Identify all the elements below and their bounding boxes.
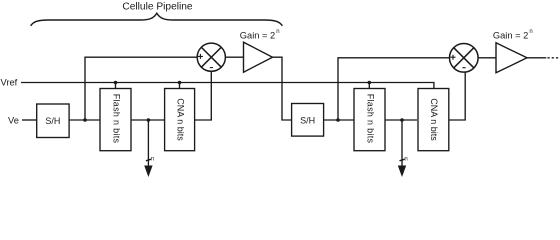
label n bits1: [151, 157, 154, 163]
wire CNA2 to summer2 minus: [449, 72, 466, 120]
svg-text:Gain = 2: Gain = 2: [240, 30, 275, 40]
arrowhead output1: [144, 166, 152, 178]
wire Vref bus: [21, 83, 434, 89]
label Ve: [8, 116, 19, 126]
node CNA1 Vref junction: [178, 81, 182, 85]
wire Flash2 to Vref: [368, 83, 370, 89]
wire riser to summer2 plus: [338, 58, 449, 120]
wire Ve input: [22, 119, 37, 121]
label minus2: [462, 67, 465, 69]
node Flash1 Vref junction: [114, 81, 118, 85]
bus slash1: [146, 159, 151, 161]
label Cellule Pipeline: [122, 2, 193, 13]
wire riser to summer1 plus: [85, 57, 197, 120]
block Flash n bits stage1: [100, 89, 131, 151]
node tap1: [83, 118, 87, 122]
node tap2: [336, 118, 340, 122]
svg-text:Flash n bits: Flash n bits: [365, 94, 375, 144]
wire gain2 output: [527, 57, 546, 59]
wire dashed continuation: [548, 57, 560, 59]
svg-text:n: n: [529, 29, 532, 35]
svg-text:n: n: [404, 157, 407, 163]
wire Flash1 to CNA1: [131, 119, 165, 121]
label n bits2: [404, 157, 407, 163]
wire S/H2 output: [324, 119, 354, 121]
svg-text:Cellule Pipeline: Cellule Pipeline: [122, 2, 193, 13]
label Gain2: [493, 29, 533, 41]
summer SUM1: [197, 43, 225, 71]
amplifier gain2: [496, 43, 527, 73]
svg-text:Vref: Vref: [1, 78, 18, 88]
block CNA n bits stage1: [165, 89, 195, 151]
wire digital output2: [401, 120, 403, 167]
wire Flash2 to CNA2: [385, 119, 417, 121]
node Flash2 Vref junction: [368, 81, 372, 85]
node digital tap1: [147, 118, 151, 122]
wire digital output1: [147, 120, 149, 167]
label Gain1: [240, 29, 280, 41]
wire CNA1 to summer1 minus: [195, 71, 212, 120]
wire gain1 to SH2: [273, 57, 292, 120]
label minus1: [210, 67, 213, 69]
svg-text:n: n: [276, 29, 279, 35]
svg-text:Ve: Ve: [8, 116, 19, 126]
wire CNA1 to Vref: [179, 83, 181, 89]
node digital tap2: [400, 118, 404, 122]
block CNA n bits stage2: [418, 89, 449, 151]
block S/H U1: [37, 104, 69, 138]
label Vref: [1, 78, 18, 88]
wire summer2 to gain2: [478, 57, 496, 59]
wire Flash1 to Vref: [115, 83, 117, 89]
svg-text:n: n: [151, 157, 154, 163]
svg-text:S/H: S/H: [300, 115, 315, 125]
bus slash2: [400, 159, 405, 161]
label plus1: [198, 54, 203, 59]
arrowhead output2: [398, 166, 406, 178]
amplifier gain1: [244, 42, 273, 72]
block Flash n bits stage2: [354, 89, 385, 151]
label plus2: [451, 55, 456, 60]
wire summer1 to gain1: [225, 56, 243, 58]
svg-text:Flash n bits: Flash n bits: [111, 94, 121, 144]
svg-text:CNA n bits: CNA n bits: [175, 98, 185, 141]
block S/H U2: [292, 104, 324, 137]
brace Cellule Pipeline: [31, 13, 283, 26]
svg-text:Gain = 2: Gain = 2: [493, 30, 528, 40]
svg-text:CNA n bits: CNA n bits: [429, 98, 439, 141]
svg-text:S/H: S/H: [45, 116, 60, 126]
wire S/H1 output: [69, 119, 100, 121]
summer SUM2: [450, 44, 479, 73]
